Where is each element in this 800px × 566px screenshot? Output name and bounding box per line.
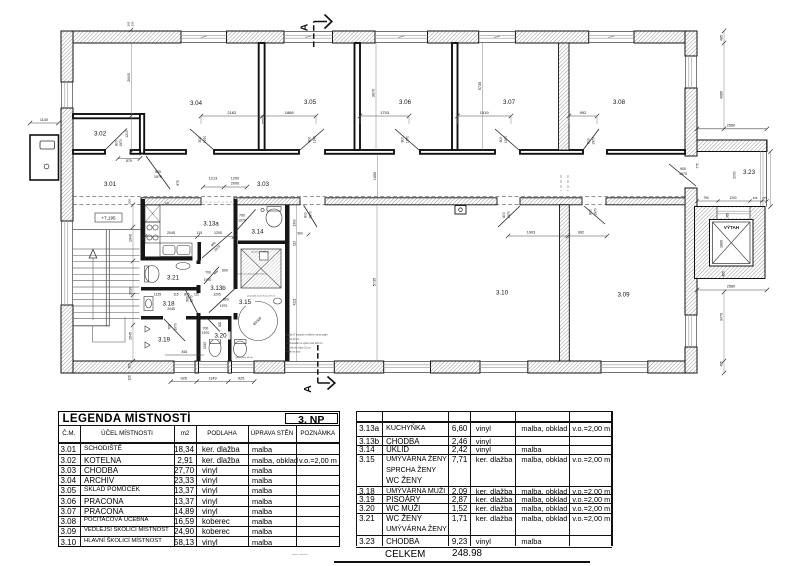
3.15 washbasin [274,298,282,304]
room label 3.13b [208,284,228,292]
svg-text:1970: 1970 [238,218,246,222]
svg-text:3.08: 3.08 [613,99,626,106]
3.15 turning circle [239,302,278,341]
svg-text:3.21: 3.21 [167,275,180,282]
svg-text:1545: 1545 [203,342,207,349]
kitchen 3.13a left wall [141,199,146,261]
room label 3.03 [253,180,273,188]
level label +7,195 [95,213,122,222]
room label 3.13a [201,220,221,228]
svg-text:1753: 1753 [380,110,390,115]
dim chain inside 3.10/3.09 top [508,235,568,237]
svg-text:120: 120 [128,375,132,381]
exterior wall: top, with window piers [61,31,181,43]
svg-text:900: 900 [155,170,161,174]
svg-text:800: 800 [499,137,503,143]
svg-text:3970: 3970 [372,89,376,97]
door 3.19 [164,319,185,341]
door 3.20 [208,319,226,338]
svg-text:2050: 2050 [733,171,737,179]
svg-text:435: 435 [753,196,758,200]
3.10 height dim [376,205,378,361]
svg-text:3.05: 3.05 [304,99,317,106]
svg-text:1970: 1970 [308,211,312,219]
door 3.10 left [304,205,318,227]
svg-text:800: 800 [304,212,308,218]
hidden edge dashes in corridor above wall 3.10/3.09 [560,175,562,191]
svg-text:1970: 1970 [202,331,210,335]
dim chain right of sanitary wall [296,205,298,361]
interior wall: room 3.02 right / corridor end [140,114,144,154]
svg-text:1200: 1200 [729,196,736,200]
corridor bottom wall segments (load-bearing, hatched) [141,198,201,205]
svg-text:+7,195: +7,195 [101,216,116,221]
3.21 washbasin [176,263,190,270]
svg-text:3.09: 3.09 [617,292,630,299]
svg-text:1970: 1970 [679,172,687,176]
kitchen sink counter [160,243,192,257]
svg-text:umyvadlo, horní hrana 78 cm: umyvadlo, horní hrana 78 cm [247,294,276,297]
room label 3.20 [211,332,231,340]
svg-text:1903: 1903 [527,231,535,235]
vertical dims mid rooms [375,43,377,150]
3.21 toilet [145,266,159,283]
kitchen stove [145,222,160,243]
svg-text:2162: 2162 [227,110,237,115]
svg-text:3.02: 3.02 [94,131,107,138]
room label 3.21 [163,274,183,282]
svg-text:1970: 1970 [220,304,228,308]
svg-text:3.06: 3.06 [399,99,412,106]
svg-text:800: 800 [502,212,506,218]
exterior entry structure [30,135,59,180]
svg-text:1970: 1970 [154,175,162,179]
wall 3.14/3.15 [238,241,290,245]
door 3.15 [209,289,235,313]
svg-text:2030: 2030 [129,287,133,295]
windows: left wall [61,82,63,108]
stair handrail below [93,317,126,342]
svg-text:992: 992 [580,110,587,115]
svg-text:1205: 1205 [213,293,221,297]
svg-text:275: 275 [762,196,767,200]
svg-text:A: A [302,385,314,393]
svg-text:3.07: 3.07 [503,99,516,106]
corridor top wall segments (with door openings) [144,150,186,154]
exterior wall: right [685,31,697,56]
svg-text:3.13a: 3.13a [203,221,219,228]
room label 3.06 [395,98,415,106]
svg-text:3.04: 3.04 [190,100,203,107]
svg-text:360: 360 [128,363,132,369]
wall 3.18 bottom segments [141,316,163,320]
bottom exterior dims [171,381,254,383]
bottom rule [334,561,590,563]
svg-text:Ø1500: Ø1500 [252,316,262,326]
dim 1140 [30,122,59,124]
svg-text:485: 485 [720,35,724,41]
door corridor to 3.13b threshold [201,201,234,203]
dim 3470/485 bottom right [723,292,725,373]
svg-text:200: 200 [128,199,132,204]
svg-text:816: 816 [182,350,188,354]
svg-text:2045: 2045 [167,231,175,235]
svg-text:1800: 1800 [720,240,724,248]
stair center rail [105,230,107,327]
svg-text:3.15: 3.15 [239,299,252,306]
door 3.04 [190,129,214,150]
stair direction arrow [89,250,97,259]
partition 3.04/3.05 [259,43,265,150]
room label 3.07 [499,98,519,106]
right side dim chain [723,31,725,129]
room label 3.10 [492,289,512,297]
partition 3.05/3.06 [355,43,361,150]
svg-text:800: 800 [223,298,229,302]
svg-text:1940: 1940 [129,234,133,242]
svg-text:925: 925 [238,376,244,380]
room label 3.08 [609,98,629,106]
svg-text:1970: 1970 [203,136,207,144]
svg-text:1970: 1970 [312,136,316,144]
svg-text:výška 60 cm: výška 60 cm [286,338,299,341]
partition 3.10/3.09 load-bearing [560,205,570,361]
svg-text:1200: 1200 [231,177,239,181]
svg-text:2045: 2045 [167,307,175,311]
svg-text:1125: 1125 [154,293,161,297]
svg-text:1213: 1213 [209,177,217,181]
3.18 washbasin [144,297,153,311]
sanitary block right wall [285,205,290,361]
room label 3.05 [300,98,320,106]
svg-text:115: 115 [197,231,203,235]
kitchen stub wall [198,242,202,261]
svg-text:2580: 2580 [727,123,735,127]
svg-text:3.20: 3.20 [214,333,227,340]
door 3.14 [236,209,256,231]
corridor height dim [377,154,379,198]
svg-text:1399: 1399 [292,219,296,226]
windows: bottom wall [174,361,195,363]
svg-text:1200: 1200 [214,231,222,235]
svg-text:1650: 1650 [373,172,377,180]
exterior wall: left [61,31,73,82]
wall 3.20/3.15 [228,320,232,362]
door 3.02 [105,129,127,151]
svg-text:1149: 1149 [208,376,216,380]
svg-text:1970: 1970 [591,137,595,145]
room label 3.04 [186,99,206,107]
door corridor 3.01-3.03 [146,156,170,189]
svg-text:115: 115 [194,293,199,297]
svg-text:3.23: 3.23 [743,169,756,176]
door 3.07 [495,129,519,150]
room label 3.15 [235,298,255,306]
svg-text:992: 992 [578,231,584,235]
vertical dims left column x=133 [131,43,133,150]
wall 3.13b/3.14 [234,199,238,289]
annex right window (corridor 3.23) [765,140,767,207]
tiny stamp text [292,552,332,556]
svg-text:3.10: 3.10 [496,290,509,297]
svg-text:220: 220 [131,21,135,26]
3.15 WC [234,341,247,357]
svg-text:CO: CO [165,201,170,205]
room label 3.19 [154,336,174,344]
svg-text:zvonek ve výšce 15 cm: zvonek ve výšce 15 cm [286,346,311,349]
svg-text:sprchová sedačka: sprchová sedačka [251,251,269,254]
elevator car VYTAH [713,222,751,264]
svg-text:madlo na stěně ve výšce 80 cm: madlo na stěně ve výšce 80 cm [237,273,268,276]
svg-text:800: 800 [587,138,591,144]
svg-text:900: 900 [680,167,686,171]
annex top wall [697,140,767,152]
svg-text:2580: 2580 [727,285,735,289]
svg-text:800: 800 [401,137,405,143]
dim 879 under 3.02 door [118,158,140,160]
interior wall: room 3.02 bottom segments [73,150,105,154]
svg-text:775: 775 [696,163,700,169]
svg-text:kazdá (7 stropní) s ničíkem na: kazdá (7 stropní) s ničíkem na wc papír [286,334,328,337]
svg-text:365: 365 [726,213,730,219]
wall 3.21/3.18 [141,287,199,291]
svg-text:1140: 1140 [40,118,48,122]
3.14 toilet [266,209,282,227]
windows: top wall [181,31,227,33]
tiny dims above top-left wall [129,28,133,32]
svg-text:3.03: 3.03 [257,181,270,188]
svg-text:1970: 1970 [593,208,597,216]
svg-text:2000: 2000 [231,182,239,186]
svg-text:400: 400 [218,322,222,328]
kitchen dims [145,236,198,238]
stair flight edge [73,325,110,327]
svg-text:3470: 3470 [720,313,724,321]
svg-text:1868: 1868 [285,110,295,115]
dim 2580 below shaft [697,289,767,291]
svg-text:700: 700 [239,214,245,218]
dim row upper rooms [201,115,263,117]
svg-text:1210: 1210 [125,130,129,138]
door 3.10 right [498,206,520,227]
room label 3.01 [100,180,120,188]
door 3.21 [204,267,219,284]
svg-text:4085: 4085 [720,91,724,99]
windows: right wall [685,56,687,88]
svg-text:875: 875 [176,180,180,186]
section mark A top [313,22,315,48]
svg-text:sprchovadlo ve výšce max 120 c: sprchovadlo ve výšce max 120 cm [286,342,323,345]
svg-text:5735: 5735 [373,278,377,286]
interior wall: room 3.02 top [73,114,144,118]
room label 3.14 [248,228,268,236]
stair treads [73,248,140,250]
svg-text:113: 113 [292,241,296,246]
stair landing line [73,229,141,231]
svg-text:výška mísy 48 cm: výška mísy 48 cm [235,357,253,359]
legend table left [58,411,340,547]
kitchen 3.13a: fridge cabinet [145,205,160,222]
svg-text:115: 115 [173,293,178,297]
svg-text:800: 800 [308,137,312,143]
svg-text:1970: 1970 [204,278,212,282]
svg-text:600: 600 [222,268,228,272]
door 3.06 [395,129,419,150]
dim 2580 above annex [697,128,767,130]
door 3.05 [300,129,324,150]
door 3.08 [583,129,599,150]
svg-text:3.14: 3.14 [251,229,264,236]
svg-text:1919: 1919 [480,110,490,115]
partition 3.06/3.07 [452,43,458,150]
svg-text:1970: 1970 [174,323,178,330]
room label 3.09 [614,291,634,299]
svg-text:A: A [299,23,311,31]
svg-text:700: 700 [203,327,209,331]
svg-text:hálak na ruce: hálak na ruce [286,351,301,354]
kitchen 3.13a bottom wall [141,257,193,261]
svg-text:485: 485 [720,361,724,367]
3.15 shower (hatched) [241,249,281,288]
svg-text:926: 926 [181,376,187,380]
legend table right [356,410,612,413]
svg-text:1545: 1545 [129,332,133,340]
svg-text:VÝTAH: VÝTAH [724,224,740,230]
svg-text:1970: 1970 [504,136,508,144]
room label 3.23 [739,168,759,176]
room label 3.02 [90,130,110,138]
door to 3.23 in right wall [669,164,696,186]
svg-text:1970: 1970 [405,136,409,144]
dim row under 3.23 [697,200,767,202]
wall right of 3.19/3.20 column [197,261,201,265]
svg-text:1970: 1970 [507,211,511,219]
svg-text:3.01: 3.01 [104,181,117,188]
elevator shaft walls [695,207,766,279]
door 3.13a from 3.13b [202,232,232,258]
svg-text:790: 790 [703,196,709,200]
svg-text:805: 805 [184,293,190,297]
svg-text:800: 800 [589,209,593,215]
svg-text:3.19: 3.19 [158,337,171,344]
svg-text:800: 800 [198,137,202,143]
wall 3.13b bottom [200,316,232,320]
door 3.18 [185,289,199,315]
svg-text:2645: 2645 [127,73,131,81]
dim 2050 in 3.23 [770,152,772,207]
door 3.09 [584,206,605,224]
svg-text:4221: 4221 [292,298,296,305]
svg-text:485: 485 [722,271,726,277]
svg-text:700: 700 [205,271,211,275]
exterior wall: bottom, with window piers [61,361,174,373]
svg-text:964: 964 [297,232,303,236]
partition 3.07/3.08 load-bearing [559,43,570,150]
section mark A bottom [317,345,319,383]
3.19 urinals [145,326,150,332]
svg-text:700: 700 [168,324,172,330]
corridor dashed ceiling lines [73,195,685,197]
3.20 toilet [209,340,221,357]
svg-text:1970: 1970 [119,139,123,147]
svg-text:3.13b: 3.13b [210,285,226,292]
elevator shaft door opening [717,208,750,219]
svg-text:879: 879 [126,159,132,163]
column in 3.10 [455,206,466,215]
room label 3.18 [159,300,179,308]
svg-text:5735: 5735 [478,82,482,90]
